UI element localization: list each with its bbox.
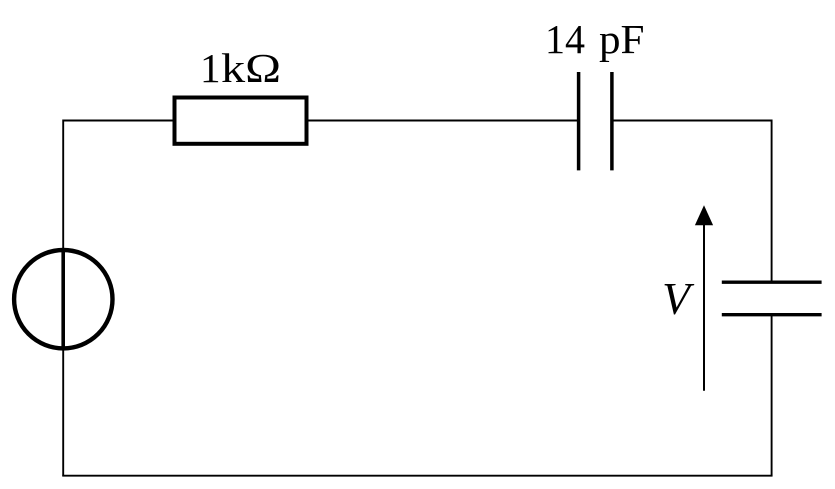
wire top-right: capacitor C1 to right branch bbox=[612, 121, 772, 283]
svg-text:kΩ: kΩ bbox=[221, 45, 281, 91]
wire top-middle: resistor to capacitor C1 bbox=[308, 120, 579, 122]
svg-text:14: 14 bbox=[545, 16, 585, 62]
voltage arrow V (shaft) bbox=[703, 224, 705, 391]
resistor (1 kΩ) body bbox=[175, 98, 307, 144]
voltage source (circle with vertical bar) bbox=[14, 250, 112, 348]
capacitor C1 value label 14 pF bbox=[545, 16, 645, 62]
wire bottom-left: bottom rail to source bottom bbox=[62, 348, 64, 476]
wire bottom rail bbox=[62, 475, 772, 477]
voltage arrow V (head) bbox=[695, 205, 713, 225]
resistor value label 1 kΩ bbox=[200, 45, 281, 91]
svg-text:1: 1 bbox=[200, 45, 221, 91]
capacitor C1 (14 pF) plates bbox=[579, 72, 612, 170]
wire top-left: source top to resistor bbox=[63, 121, 172, 251]
wire bottom-right: capacitor C2 to bottom rail bbox=[771, 315, 773, 476]
capacitor C2 (output) plates bbox=[722, 282, 822, 315]
svg-text:pF: pF bbox=[599, 16, 645, 62]
svg-text:V: V bbox=[662, 273, 695, 324]
